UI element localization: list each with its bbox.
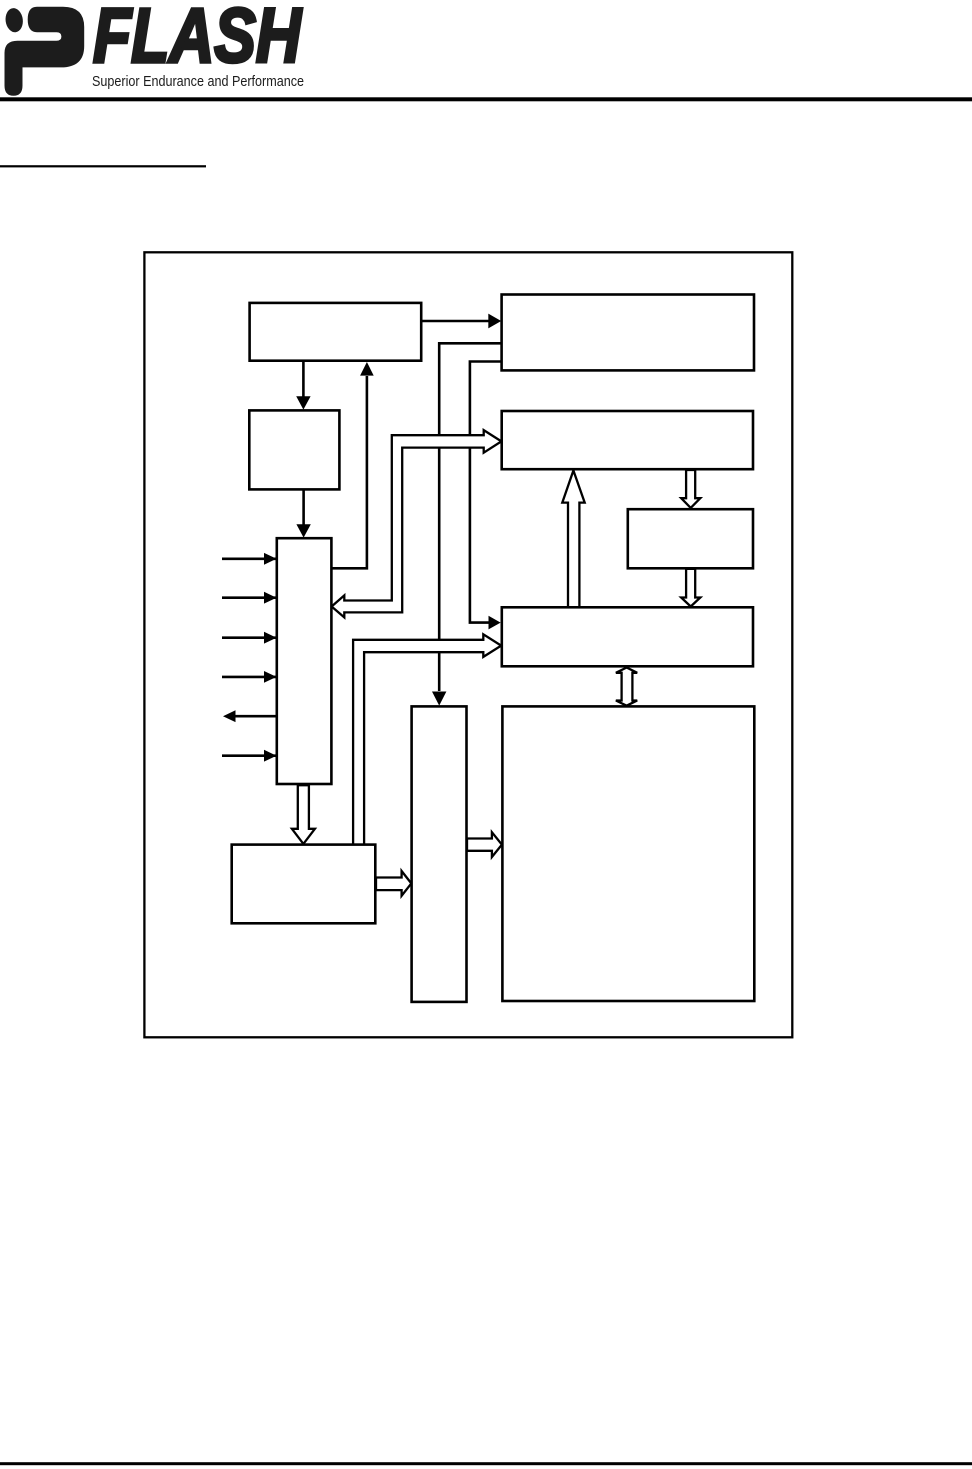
block I: [412, 706, 467, 1002]
arrowhead B to I: [432, 692, 446, 706]
arrowhead input 3: [264, 632, 277, 644]
block D: [277, 538, 332, 784]
diagram outer border: [144, 252, 792, 1037]
wire B to K: [470, 362, 502, 623]
footer rule: [0, 1462, 972, 1465]
arrowhead A to B: [488, 314, 501, 329]
open arrow H to I: [376, 871, 411, 896]
arrowhead input 2: [264, 592, 277, 604]
block F: [502, 706, 754, 1001]
heading underline: [0, 165, 206, 167]
block C: [249, 410, 339, 489]
arrowhead input 1: [264, 553, 277, 565]
arrowhead input 6: [264, 750, 277, 762]
svg-text:Superior Endurance and Perform: Superior Endurance and Performance: [92, 73, 304, 90]
block B: [502, 295, 754, 371]
input wire 2: [222, 596, 276, 599]
wire A to C: [302, 361, 305, 397]
block K: [502, 607, 753, 666]
output wire 5: [235, 715, 276, 718]
logo mark hook and stem: [5, 7, 85, 96]
logo mark dot: [4, 7, 24, 33]
block E: [502, 411, 753, 469]
open arrow K to E: [562, 471, 584, 609]
open arrow D to H: [292, 785, 315, 844]
open arrow H to K: [353, 634, 501, 845]
wire D to A: [331, 376, 367, 568]
header rule: [0, 97, 972, 101]
open arrow K to F (double headed): [616, 668, 637, 706]
arrowhead input 4: [264, 671, 277, 683]
block A: [250, 303, 422, 361]
arrowhead output 5: [223, 710, 236, 722]
wire C to D: [302, 489, 305, 525]
block G: [628, 509, 753, 568]
input wire 1: [222, 557, 276, 560]
open arrow D to E (double headed): [332, 430, 502, 617]
arrowhead B to K: [489, 616, 501, 630]
arrowhead A to C: [296, 396, 310, 409]
input wire 6: [222, 754, 276, 757]
svg-text:FLASH: FLASH: [93, 0, 302, 79]
open arrow G to K: [681, 569, 700, 607]
open arrow I to F: [467, 832, 502, 857]
open arrow E to G: [681, 470, 700, 508]
arrowhead C to D: [296, 524, 310, 537]
block H: [232, 845, 376, 924]
wire B to I: [439, 343, 501, 691]
input wire 3: [222, 636, 276, 639]
wire A to B: [421, 320, 490, 323]
arrowhead D to A: [360, 362, 374, 376]
input wire 4: [222, 676, 276, 679]
